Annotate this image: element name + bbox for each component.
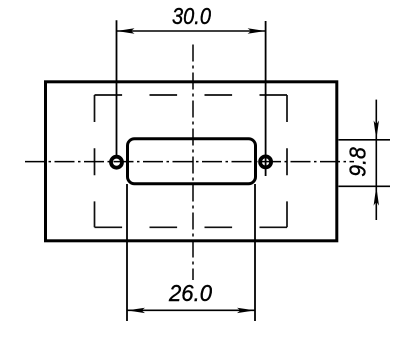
vertical centerline (192, 45, 194, 281)
connector cutout rounded rectangle (128, 139, 256, 184)
dim 30.0 : left extension line (116, 20, 118, 157)
dim 26.0 : left extension line (126, 184, 128, 321)
dim 26.0 : right extension line (254, 184, 256, 321)
svg-text:30.0: 30.0 (172, 3, 211, 30)
dim 30.0 : left arrow (117, 28, 135, 33)
left mounting hole (111, 157, 122, 168)
dim 30.0 : right arrow (248, 28, 266, 33)
dim 9.8 : top arrow (points down) (374, 121, 379, 140)
hidden (dashed) rectangle : left edge (94, 95, 96, 227)
hidden (dashed) rectangle : top edge (95, 94, 288, 96)
dim 26.0 : right arrow (237, 308, 255, 313)
dim 26.0 : dimension line (127, 309, 255, 311)
right mounting hole (260, 156, 271, 167)
dim 30.0 : dimension line (117, 30, 266, 32)
outer panel rectangle (46, 82, 337, 241)
dim 26.0 : left arrow (127, 308, 145, 313)
svg-text:9.8: 9.8 (345, 147, 371, 177)
dim 9.8 : top extension line (339, 139, 391, 141)
dim 9.8 : bottom extension line (339, 185, 391, 187)
horizontal centerline (25, 161, 354, 163)
dim 30.0 : right extension line (265, 21, 267, 176)
dim 9.8 : dimension line (375, 100, 377, 220)
hidden (dashed) rectangle : right edge (286, 95, 288, 227)
dim 9.8 : bottom arrow (points up) (374, 186, 379, 205)
svg-text:26.0: 26.0 (168, 280, 212, 306)
hidden (dashed) rectangle : bottom edge (95, 226, 288, 228)
